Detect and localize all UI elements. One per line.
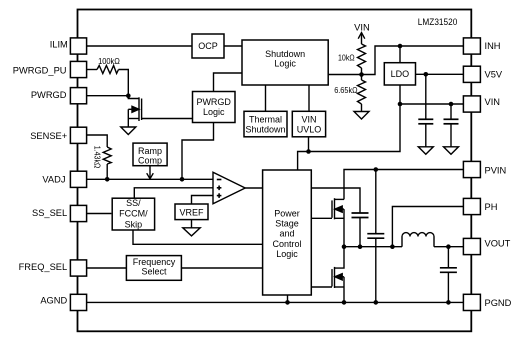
svg-text:PGND: PGND bbox=[485, 298, 512, 308]
capacitor C3 boot bbox=[352, 213, 369, 247]
resistor 100k bbox=[97, 66, 119, 74]
wire Shutdown Logic to Thermal Shutdown bbox=[265, 85, 267, 111]
ground below Q1 bbox=[121, 127, 136, 135]
pin AGND bbox=[70, 294, 86, 310]
wire VIN pin line bbox=[400, 103, 463, 105]
svg-text:VIN: VIN bbox=[354, 22, 370, 33]
wire Shutdown Logic to divider bbox=[328, 74, 361, 76]
box Thermal Shutdown bbox=[244, 111, 287, 137]
wire VIN UVLO down to VIN net bbox=[308, 137, 310, 152]
svg-text:100kΩ: 100kΩ bbox=[98, 57, 120, 66]
svg-text:INH: INH bbox=[485, 41, 501, 51]
svg-text:LMZ31520: LMZ31520 bbox=[418, 17, 458, 28]
transistor Q1 PWRGD pulldown bbox=[128, 96, 141, 127]
svg-text:SS/: SS/ bbox=[126, 198, 141, 208]
ground below C1 bbox=[418, 147, 433, 155]
svg-text:PWRGD: PWRGD bbox=[196, 97, 231, 107]
wire Frequency Select to Power Stage bbox=[181, 267, 262, 269]
border frame bbox=[78, 10, 472, 332]
pin INH bbox=[463, 38, 480, 54]
svg-text:PVIN: PVIN bbox=[485, 166, 507, 176]
svg-text:LDO: LDO bbox=[391, 69, 410, 79]
wire VIN node down to capacitor C2 bbox=[450, 104, 452, 119]
svg-text:VADJ: VADJ bbox=[42, 174, 65, 184]
wire FREQ_SEL to Frequency Select bbox=[87, 267, 127, 269]
transistor Q2 high-side FET bbox=[332, 198, 344, 247]
resistor 1.43k bbox=[103, 147, 111, 164]
box Frequency Select bbox=[126, 256, 181, 281]
pin SS_SEL bbox=[70, 205, 86, 221]
svg-text:PH: PH bbox=[485, 202, 498, 212]
svg-text:VREF: VREF bbox=[179, 208, 204, 218]
capacitor C4 input bbox=[367, 234, 384, 303]
wire LDO bottom to VIN line bbox=[399, 85, 401, 104]
ground below 6.65k bbox=[354, 112, 369, 120]
resistor 10k bbox=[358, 44, 366, 68]
wire Power Stage to boot capacitor bbox=[311, 188, 360, 213]
svg-text:Frequency: Frequency bbox=[133, 257, 176, 267]
pin V5V bbox=[463, 66, 480, 82]
svg-text:PWRGD_PU: PWRGD_PU bbox=[13, 66, 67, 76]
wire 6.65k to ground bbox=[361, 104, 363, 112]
capacitor C1 V5V bypass bbox=[418, 119, 433, 147]
wire SENSE+ to 1.43k bbox=[87, 135, 108, 147]
op-amp U1 error comparator bbox=[213, 172, 245, 203]
wire INH node to LDO top bbox=[399, 46, 401, 63]
svg-text:Power: Power bbox=[274, 209, 300, 219]
wire VIN net to Power Stage top bbox=[298, 152, 309, 171]
box VREF bbox=[175, 204, 208, 220]
wire Q3 gate to Power Stage bbox=[311, 286, 332, 288]
svg-text:Thermal: Thermal bbox=[249, 115, 282, 125]
box Ramp Comp bbox=[133, 143, 167, 166]
svg-text:SS_SEL: SS_SEL bbox=[32, 208, 67, 218]
svg-text:ILIM: ILIM bbox=[50, 40, 68, 50]
svg-text:and: and bbox=[279, 229, 294, 239]
svg-text:SENSE+: SENSE+ bbox=[30, 131, 67, 141]
wire VIN net horizontal run bbox=[309, 104, 401, 152]
svg-text:Logic: Logic bbox=[203, 107, 225, 117]
pin PH bbox=[463, 198, 480, 214]
svg-text:FREQ_SEL: FREQ_SEL bbox=[19, 262, 68, 272]
svg-text:Logic: Logic bbox=[276, 249, 298, 259]
wire PVIN node down to input capacitor bbox=[375, 170, 377, 234]
pin VIN bbox=[463, 96, 480, 112]
wire PWRGD Logic to VADJ line bbox=[182, 123, 214, 180]
wire AGND to PGND bbox=[87, 301, 464, 303]
svg-text:Skip: Skip bbox=[125, 220, 143, 230]
pin PVIN bbox=[463, 161, 480, 177]
wire SS box to Power Stage bbox=[133, 230, 263, 245]
wire VADJ to comparator minus bbox=[87, 178, 213, 180]
svg-text:UVLO: UVLO bbox=[297, 125, 322, 135]
svg-text:10kΩ: 10kΩ bbox=[338, 53, 355, 62]
wire Shutdown Logic to VIN UVLO bbox=[308, 85, 310, 111]
svg-text:6.65kΩ: 6.65kΩ bbox=[334, 86, 358, 95]
pin FREQ_SEL bbox=[70, 260, 86, 276]
ground below VREF bbox=[183, 228, 200, 236]
wire OCP to Shutdown Logic bbox=[224, 45, 242, 47]
inductor L1 bbox=[402, 233, 434, 247]
pin VOUT bbox=[463, 238, 480, 254]
wire LDO to V5V bbox=[416, 73, 464, 75]
pin VADJ bbox=[70, 171, 86, 187]
pin PWRGD bbox=[70, 88, 86, 104]
wire SS box to comparator plus bbox=[134, 188, 213, 198]
wire Q2 gate to Power Stage bbox=[311, 217, 332, 219]
wire VREF to comparator plus2 bbox=[192, 196, 214, 205]
svg-text:Ramp: Ramp bbox=[138, 146, 162, 156]
box OCP bbox=[192, 34, 224, 58]
wire PWRGD_PU to resistor bbox=[87, 69, 97, 71]
box LDO bbox=[384, 63, 415, 85]
wire VOUT node down to output capacitor bbox=[447, 247, 449, 268]
wire inductor to VOUT bbox=[434, 246, 463, 248]
svg-text:Control: Control bbox=[272, 239, 301, 249]
svg-text:OCP: OCP bbox=[198, 41, 218, 51]
wire 10k to 6.65k junction bbox=[361, 68, 363, 80]
box SS FCCM Skip bbox=[112, 198, 154, 230]
wire VREF to ground bbox=[191, 220, 193, 228]
wire op-amp output to Power Stage bbox=[245, 187, 262, 189]
transistor Q3 low-side FET bbox=[332, 247, 344, 303]
svg-text:1.43kΩ: 1.43kΩ bbox=[93, 146, 102, 169]
svg-text:Select: Select bbox=[141, 266, 167, 276]
wire V5V node down to capacitor C1 bbox=[425, 74, 427, 119]
wire switch node bbox=[344, 246, 402, 248]
pin PWRGD_PU bbox=[70, 61, 86, 77]
node junction dots bbox=[126, 93, 131, 98]
pin ILIM bbox=[70, 38, 86, 54]
box Power Stage and Control Logic bbox=[263, 170, 312, 295]
svg-text:V5V: V5V bbox=[485, 70, 503, 80]
svg-text:Shutdown: Shutdown bbox=[245, 125, 285, 135]
wire Ramp Comp arrow bbox=[147, 166, 154, 179]
box VIN UVLO bbox=[292, 111, 325, 137]
wire Q1 gate to PWRGD Logic bbox=[142, 118, 193, 120]
wire divider to INH bbox=[362, 46, 464, 75]
wire PVIN line bbox=[344, 170, 463, 200]
wire Shutdown Logic to PWRGD Logic bbox=[214, 73, 243, 92]
ground below C2 bbox=[444, 147, 459, 155]
svg-text:FCCM/: FCCM/ bbox=[119, 209, 148, 219]
svg-text:PWRGD: PWRGD bbox=[31, 90, 67, 100]
svg-text:Shutdown: Shutdown bbox=[265, 49, 305, 59]
pin SENSE+ bbox=[70, 127, 86, 143]
wire 1.43k to VADJ line bbox=[106, 164, 108, 179]
pin PGND bbox=[463, 294, 480, 310]
capacitor C2 VIN bypass bbox=[444, 119, 459, 147]
svg-text:VIN: VIN bbox=[485, 97, 501, 107]
box Shutdown Logic bbox=[242, 40, 328, 85]
box PWRGD Logic bbox=[193, 92, 236, 123]
capacitor C5 output bbox=[440, 268, 457, 303]
svg-text:AGND: AGND bbox=[40, 296, 67, 306]
wire SS_SEL to SS box bbox=[87, 213, 112, 215]
wire Power Stage bottom to AGND line bbox=[287, 295, 289, 302]
svg-text:Comp: Comp bbox=[138, 156, 162, 166]
svg-text:Logic: Logic bbox=[274, 59, 296, 69]
svg-text:Stage: Stage bbox=[275, 219, 299, 229]
wire PH pin to switch node bbox=[392, 207, 463, 247]
node VIN label arrow bbox=[358, 33, 365, 44]
wire ILIM to OCP bbox=[87, 45, 192, 47]
wire PWRGD to node bbox=[87, 95, 129, 97]
svg-text:VOUT: VOUT bbox=[485, 239, 511, 249]
svg-text:VIN: VIN bbox=[301, 115, 316, 125]
resistor 6.65k bbox=[358, 80, 366, 104]
wire 100k to PWRGD node bbox=[119, 70, 129, 96]
